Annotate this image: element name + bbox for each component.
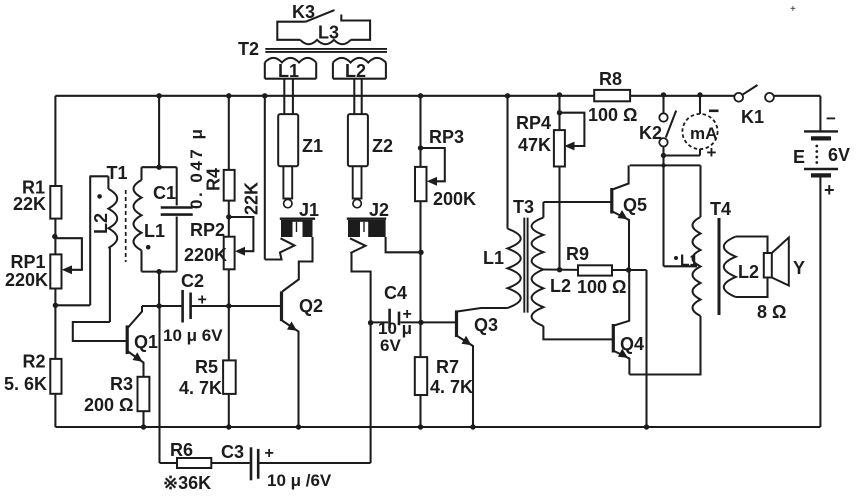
svg-text:R3: R3: [110, 374, 133, 394]
svg-text:200 Ω: 200 Ω: [84, 395, 133, 415]
svg-text:T2: T2: [238, 39, 259, 59]
svg-text:0. 047 μ: 0. 047 μ: [187, 127, 206, 209]
svg-text:6V: 6V: [828, 145, 850, 165]
svg-text:T4: T4: [710, 199, 731, 219]
svg-text:Q4: Q4: [620, 334, 644, 354]
svg-text:5. 6K: 5. 6K: [4, 374, 47, 394]
svg-text:L1: L1: [483, 248, 504, 268]
svg-text:T1: T1: [107, 163, 128, 183]
svg-text:R4: R4: [204, 168, 224, 191]
svg-text:J1: J1: [299, 200, 319, 220]
svg-text:L2: L2: [738, 262, 759, 282]
svg-text:L3: L3: [318, 23, 339, 43]
svg-text:L2: L2: [91, 213, 111, 234]
svg-text:220K: 220K: [5, 270, 48, 290]
svg-text:Q5: Q5: [623, 195, 647, 215]
svg-text:RP1: RP1: [11, 252, 46, 272]
svg-text:R2: R2: [23, 352, 46, 372]
svg-text:Q2: Q2: [299, 296, 323, 316]
svg-text:T3: T3: [513, 197, 534, 217]
svg-text:J2: J2: [369, 200, 389, 220]
svg-text:C2: C2: [181, 271, 204, 291]
svg-text:Y: Y: [793, 258, 805, 278]
svg-text:4. 7K: 4. 7K: [179, 378, 222, 398]
svg-text:RP2: RP2: [190, 220, 225, 240]
svg-text:R5: R5: [195, 357, 218, 377]
svg-text:+: +: [790, 4, 796, 15]
svg-text:+: +: [265, 445, 274, 462]
svg-text:−: −: [826, 109, 836, 128]
svg-text:K1: K1: [741, 107, 764, 127]
svg-text:R8: R8: [599, 69, 622, 89]
svg-text:22K: 22K: [13, 194, 46, 214]
svg-text:C4: C4: [384, 283, 407, 303]
svg-text:mA: mA: [690, 124, 717, 143]
svg-text:10 μ 6V: 10 μ 6V: [163, 326, 223, 345]
svg-text:L1: L1: [278, 61, 299, 81]
svg-text:+: +: [707, 143, 717, 162]
svg-text:L2: L2: [345, 61, 366, 81]
svg-text:22K: 22K: [242, 182, 262, 215]
svg-text:Q1: Q1: [134, 332, 158, 352]
svg-text:100 Ω: 100 Ω: [577, 277, 626, 297]
svg-text:※36K: ※36K: [163, 473, 211, 493]
svg-text:R6: R6: [170, 440, 193, 460]
svg-text:R9: R9: [566, 244, 589, 264]
svg-text:100 Ω: 100 Ω: [588, 105, 637, 125]
svg-text:4. 7K: 4. 7K: [430, 377, 473, 397]
svg-text:C1: C1: [153, 183, 176, 203]
svg-text:+: +: [824, 180, 835, 200]
svg-text:Z2: Z2: [372, 136, 393, 156]
svg-text:Z1: Z1: [302, 136, 323, 156]
svg-text:+: +: [198, 292, 207, 309]
svg-text:E: E: [793, 147, 805, 167]
svg-text:R7: R7: [436, 357, 459, 377]
svg-text:L1: L1: [680, 253, 698, 270]
svg-text:K2: K2: [639, 123, 662, 143]
svg-text:Q3: Q3: [474, 315, 498, 335]
svg-text:L1: L1: [144, 221, 165, 241]
svg-text:RP3: RP3: [429, 127, 464, 147]
svg-text:8 Ω: 8 Ω: [757, 302, 786, 322]
svg-text:C3: C3: [221, 442, 244, 462]
svg-text:K3: K3: [292, 2, 315, 22]
svg-text:6V: 6V: [380, 336, 401, 355]
svg-text:200K: 200K: [433, 189, 476, 209]
svg-text:47K: 47K: [518, 135, 551, 155]
svg-text:L2: L2: [550, 276, 571, 296]
svg-text:220K: 220K: [184, 245, 227, 265]
svg-text:RP4: RP4: [516, 113, 551, 133]
svg-text:10 μ /6V: 10 μ /6V: [267, 471, 332, 490]
